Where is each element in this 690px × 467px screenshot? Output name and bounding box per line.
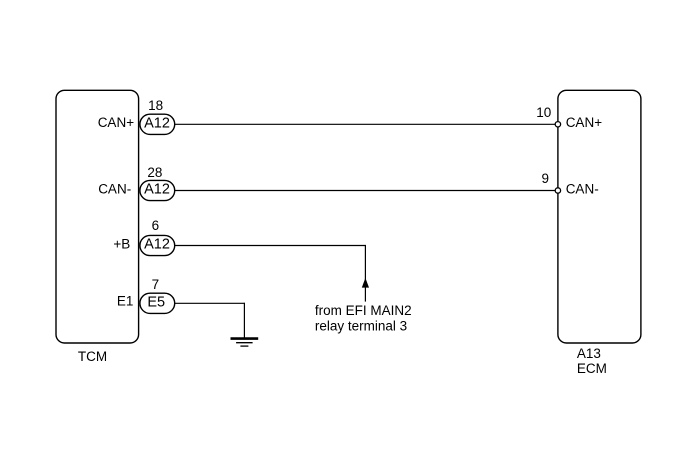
svg-text:E1: E1 — [117, 294, 134, 309]
svg-text:E5: E5 — [147, 295, 165, 311]
svg-text:A12: A12 — [144, 115, 170, 131]
svg-text:28: 28 — [147, 165, 162, 180]
terminal capsule E5 pin 7 (E1) — [140, 293, 175, 313]
TCM module box — [56, 90, 139, 343]
terminal capsule A12 pin 28 (CAN-) — [140, 180, 175, 200]
svg-text:relay terminal 3: relay terminal 3 — [315, 319, 407, 334]
ground symbol — [231, 337, 259, 340]
wire +B vertical segment to EFI MAIN2 relay — [364, 245, 366, 302]
svg-text:A13: A13 — [577, 346, 601, 361]
wire E1 vertical segment to ground — [243, 303, 245, 338]
svg-text:18: 18 — [148, 98, 163, 113]
svg-text:ECM: ECM — [577, 361, 607, 376]
svg-text:CAN-: CAN- — [98, 181, 131, 196]
ECM module box — [558, 90, 641, 343]
svg-text:9: 9 — [541, 171, 549, 186]
svg-text:A12: A12 — [144, 182, 170, 198]
svg-text:CAN+: CAN+ — [98, 115, 135, 130]
terminal capsule A12 pin 6 (+B) — [140, 235, 175, 255]
svg-text:+B: +B — [113, 236, 130, 251]
svg-text:10: 10 — [536, 105, 551, 120]
svg-text:A12: A12 — [144, 237, 170, 253]
svg-text:7: 7 — [152, 277, 160, 292]
svg-text:from EFI MAIN2: from EFI MAIN2 — [315, 303, 412, 318]
ECM terminal circle pin 10 (CAN+) — [555, 122, 560, 127]
svg-text:TCM: TCM — [78, 349, 107, 364]
svg-text:CAN+: CAN+ — [566, 115, 603, 130]
ECM terminal circle pin 9 (CAN-) — [555, 188, 560, 193]
svg-text:6: 6 — [152, 218, 160, 233]
wire E1 horizontal segment — [175, 302, 245, 304]
wire CAN+ : TCM A12-18 to ECM pin 10 — [175, 123, 556, 125]
arrowhead from EFI MAIN2 relay (pointing up) — [362, 278, 369, 288]
wire CAN- : TCM A12-28 to ECM pin 9 — [175, 190, 556, 192]
wire +B horizontal segment — [175, 245, 366, 247]
terminal capsule A12 pin 18 (CAN+) — [140, 114, 175, 134]
svg-text:CAN-: CAN- — [566, 181, 599, 196]
